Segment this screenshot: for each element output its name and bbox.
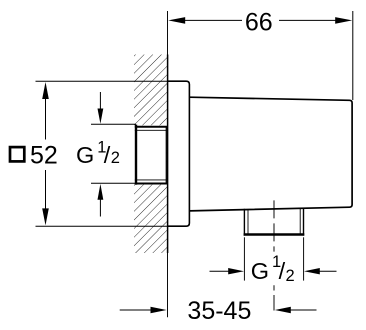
svg-text:G: G — [76, 142, 94, 168]
dimension 35-45 — [120, 297, 317, 325]
square symbol — [10, 147, 24, 161]
wall hatching — [134, 55, 167, 254]
arrow right — [335, 17, 352, 24]
body (tapered block) — [189, 97, 352, 211]
right arrow — [291, 309, 317, 311]
left arrow — [120, 309, 151, 311]
ext lines — [243, 237, 245, 280]
svg-text:66: 66 — [245, 8, 273, 36]
svg-text:2: 2 — [286, 267, 295, 285]
flange (escutcheon) — [167, 81, 189, 226]
outlet G1/2 male thread — [244, 209, 305, 236]
dimension 66 — [168, 8, 353, 100]
arrow up (lower) — [99, 200, 101, 217]
ext line socket top — [91, 123, 136, 125]
socket white mask — [134, 125, 167, 184]
centerline (dashed) — [273, 200, 275, 310]
ext line top — [36, 80, 168, 82]
socket G1/2 female thread — [135, 125, 167, 185]
label G 1/2 (left) — [76, 139, 120, 168]
wall line — [167, 11, 169, 55]
dim line — [45, 98, 47, 140]
arrow left — [168, 17, 185, 24]
dimension G 1/2 (bottom) — [210, 237, 337, 285]
socket end line at wall — [165, 126, 167, 184]
ext line socket bottom — [91, 182, 136, 184]
svg-text:G: G — [251, 258, 269, 284]
ext line bottom — [36, 225, 168, 227]
arrow down — [42, 208, 49, 225]
right arrow — [320, 270, 337, 272]
socket dimension arrows — [91, 92, 136, 217]
left arrow — [210, 270, 229, 272]
dimension 52 — [10, 81, 167, 226]
svg-text:/: / — [104, 142, 111, 168]
ext line right — [352, 11, 354, 100]
svg-text:2: 2 — [111, 149, 120, 167]
svg-text:52: 52 — [30, 142, 58, 170]
dim line — [184, 19, 242, 21]
svg-text:35-45: 35-45 — [187, 297, 251, 325]
arrow down (upper) — [99, 92, 101, 109]
arrow up — [42, 82, 49, 99]
